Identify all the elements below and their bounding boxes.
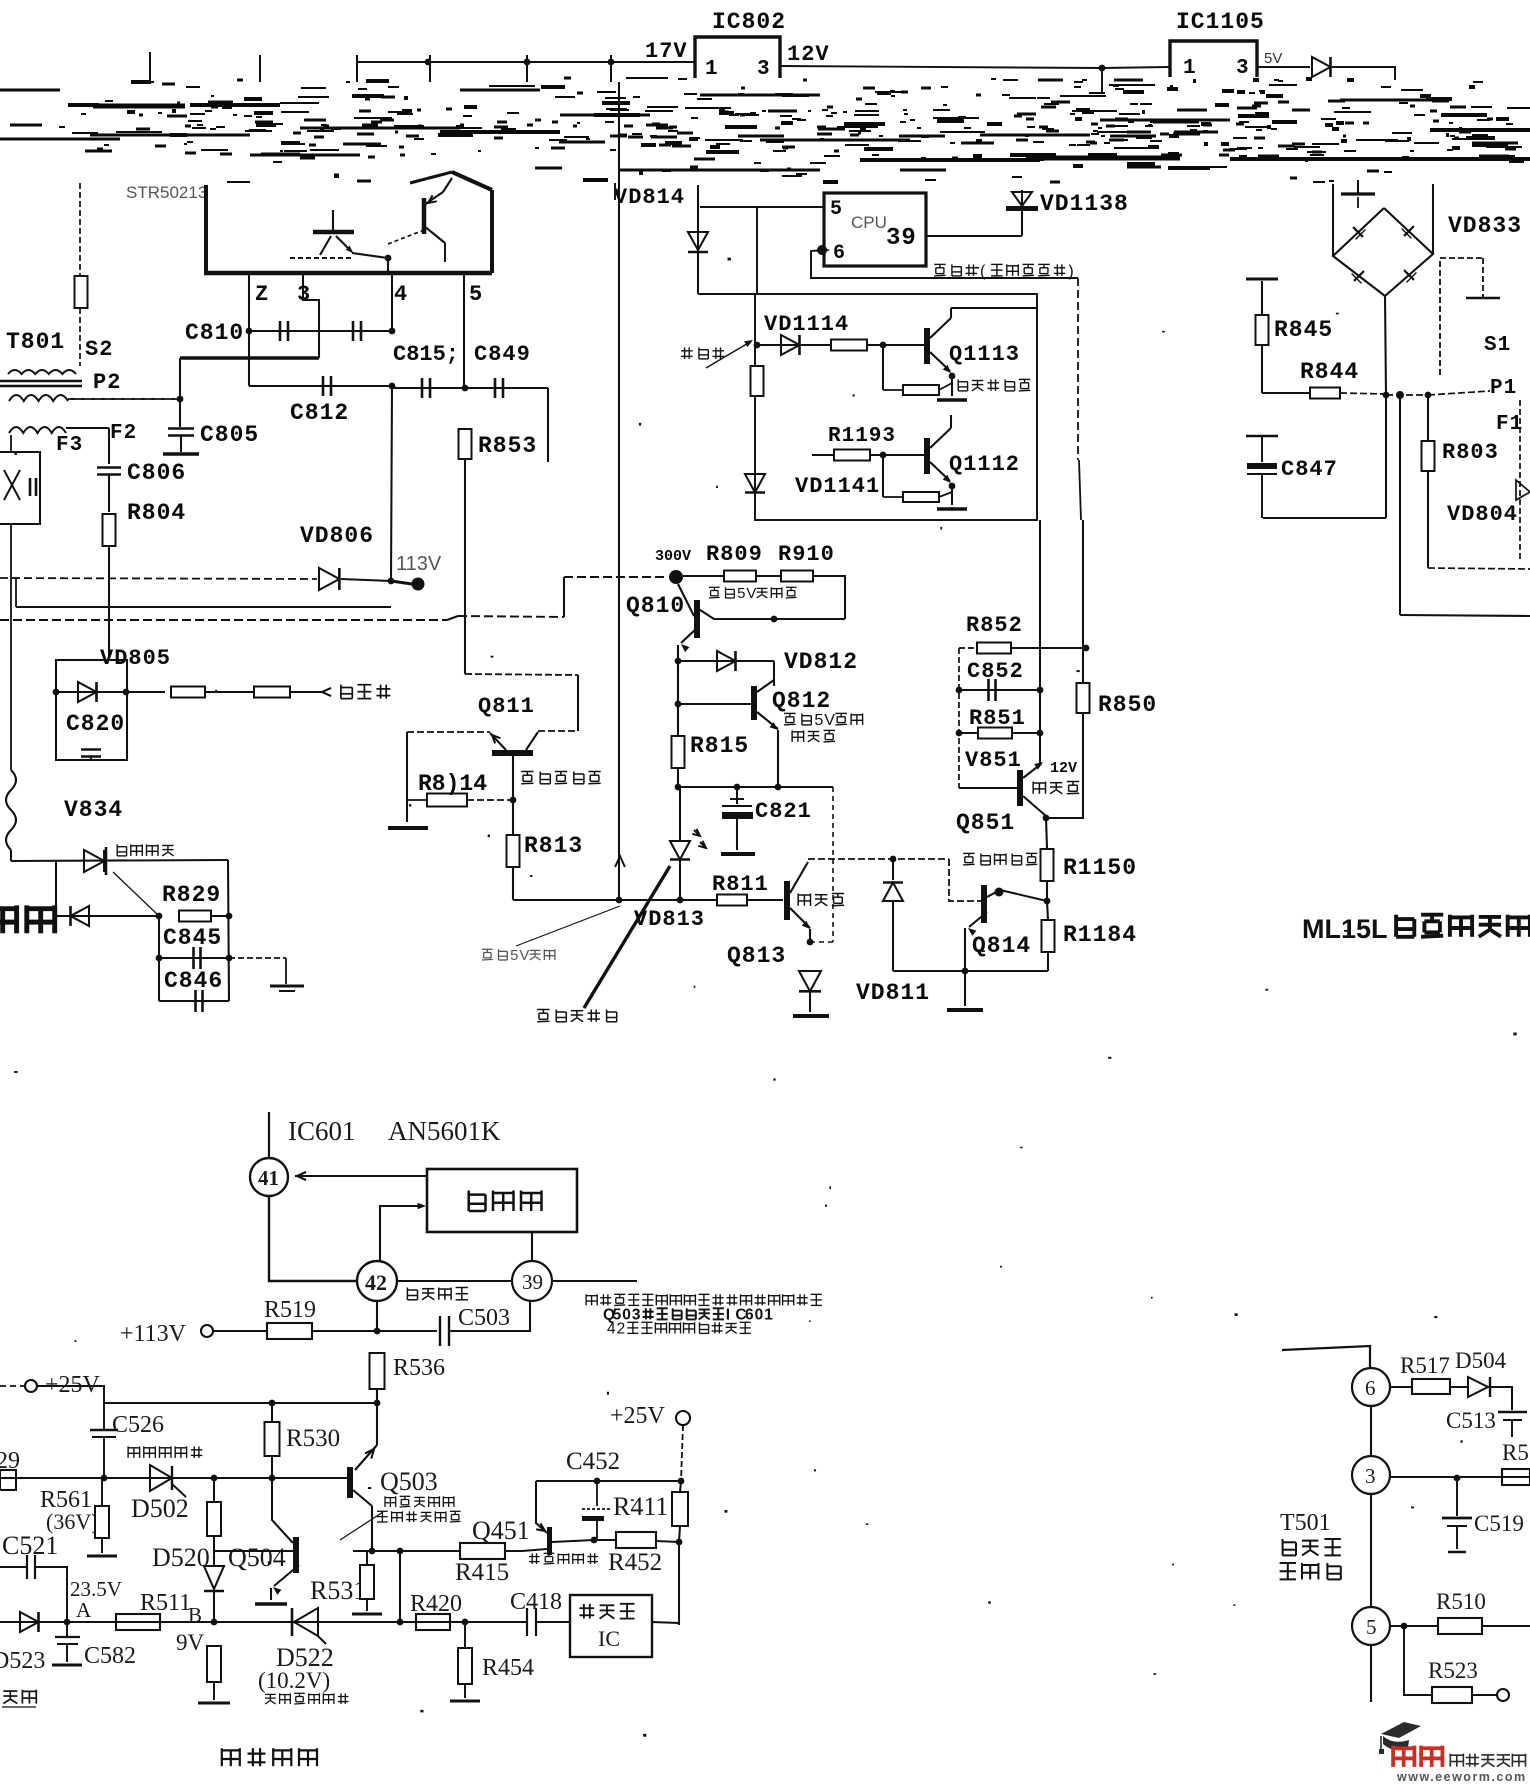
- svg-text:Q811: Q811: [478, 694, 535, 719]
- svg-text:R454: R454: [482, 1655, 534, 1681]
- svg-text:+25V: +25V: [45, 1372, 101, 1398]
- svg-text:V834: V834: [64, 797, 123, 823]
- svg-text:Q851: Q851: [956, 810, 1015, 836]
- svg-text:R853: R853: [478, 433, 537, 459]
- svg-text:AN5601K: AN5601K: [388, 1116, 501, 1146]
- svg-text:Q810: Q810: [626, 593, 685, 619]
- svg-text:5: 5: [737, 586, 745, 602]
- svg-text:STR50213: STR50213: [126, 183, 207, 202]
- svg-text:R910: R910: [778, 542, 835, 567]
- svg-text:3: 3: [1365, 1464, 1376, 1488]
- svg-text:R850: R850: [1098, 692, 1157, 718]
- svg-text:3: 3: [632, 1306, 641, 1323]
- svg-text:39: 39: [522, 1270, 543, 1294]
- svg-text:6: 6: [745, 1306, 754, 1323]
- svg-text:A: A: [76, 1598, 92, 1622]
- svg-text:F3: F3: [56, 434, 83, 457]
- svg-text:R844: R844: [1300, 359, 1359, 385]
- svg-text:(: (: [980, 262, 986, 280]
- svg-text:0: 0: [755, 1306, 764, 1323]
- svg-text:300V: 300V: [655, 548, 691, 565]
- svg-text:VD1141: VD1141: [795, 474, 880, 499]
- svg-text:C452: C452: [566, 1448, 620, 1475]
- svg-text:R1150: R1150: [1063, 855, 1137, 881]
- svg-text:B: B: [188, 1603, 202, 1627]
- svg-text:D523: D523: [0, 1648, 45, 1674]
- svg-text:Q451: Q451: [472, 1516, 530, 1545]
- svg-text:S1: S1: [1484, 334, 1511, 357]
- svg-text:F1: F1: [1496, 413, 1523, 436]
- svg-text:F2: F2: [110, 422, 137, 445]
- svg-text:C846: C846: [164, 968, 223, 994]
- svg-text:T801: T801: [6, 329, 65, 355]
- svg-text:R804: R804: [127, 500, 186, 526]
- svg-text:D520: D520: [152, 1543, 210, 1572]
- svg-text:VD814: VD814: [614, 185, 685, 210]
- svg-text:R415: R415: [455, 1559, 509, 1586]
- svg-text:R411: R411: [613, 1492, 668, 1521]
- svg-text:): ): [1068, 262, 1073, 280]
- svg-text:D502: D502: [131, 1494, 189, 1523]
- svg-text:4: 4: [394, 282, 408, 307]
- svg-text:R510: R510: [1436, 1589, 1486, 1614]
- svg-text:C805: C805: [200, 422, 259, 448]
- svg-text:5V: 5V: [1264, 50, 1282, 67]
- svg-text:+113V: +113V: [120, 1321, 187, 1347]
- svg-text:5: 5: [469, 282, 483, 307]
- svg-text:C503: C503: [458, 1305, 510, 1331]
- svg-text:ML15L: ML15L: [1302, 914, 1388, 944]
- svg-text:R852: R852: [966, 613, 1023, 638]
- svg-text:17V: 17V: [645, 39, 688, 64]
- svg-text:(10.2V): (10.2V): [258, 1668, 330, 1693]
- svg-text:R1193: R1193: [828, 425, 896, 448]
- svg-text:VD804: VD804: [1447, 502, 1518, 527]
- svg-text:D504: D504: [1455, 1348, 1507, 1373]
- svg-text:+25V: +25V: [610, 1403, 666, 1429]
- svg-text:IC: IC: [598, 1626, 620, 1651]
- svg-text:C849: C849: [474, 342, 531, 367]
- svg-text:VD833: VD833: [1448, 213, 1522, 239]
- svg-text:5: 5: [830, 198, 843, 221]
- svg-text:6: 6: [1365, 1376, 1376, 1400]
- svg-text:VD1138: VD1138: [1040, 191, 1129, 217]
- svg-text:VD1114: VD1114: [764, 312, 849, 337]
- svg-text:C519: C519: [1474, 1511, 1524, 1536]
- svg-text:3: 3: [1236, 57, 1250, 80]
- svg-text:C521: C521: [2, 1531, 58, 1560]
- svg-text:R813: R813: [524, 833, 583, 859]
- svg-text:CPU: CPU: [851, 213, 887, 232]
- svg-text:R511: R511: [140, 1590, 191, 1616]
- svg-text:R5: R5: [1502, 1440, 1529, 1465]
- svg-text:R530: R530: [286, 1425, 340, 1452]
- svg-text:42: 42: [365, 1270, 387, 1295]
- svg-text:9V: 9V: [176, 1630, 205, 1655]
- svg-text:R531: R531: [310, 1576, 366, 1605]
- svg-text:IC1105: IC1105: [1176, 9, 1265, 35]
- svg-text:R829: R829: [162, 882, 221, 908]
- svg-text:12V: 12V: [1050, 760, 1077, 777]
- svg-text:Q814: Q814: [972, 933, 1031, 959]
- svg-text:IC601: IC601: [288, 1116, 356, 1146]
- svg-text:I: I: [726, 1306, 730, 1323]
- svg-text:C806: C806: [127, 460, 186, 486]
- svg-text:3: 3: [757, 58, 771, 81]
- svg-text:Z: Z: [255, 282, 269, 307]
- svg-text:4: 4: [607, 1320, 616, 1337]
- svg-text:C820: C820: [66, 711, 125, 737]
- svg-text:T501: T501: [1280, 1510, 1331, 1536]
- svg-text:P1: P1: [1490, 377, 1517, 400]
- svg-text:R523: R523: [1428, 1658, 1478, 1683]
- svg-text:3: 3: [297, 282, 311, 307]
- svg-text:C526: C526: [112, 1412, 164, 1438]
- svg-text:VD811: VD811: [856, 980, 930, 1006]
- svg-text:VD806: VD806: [300, 523, 374, 549]
- svg-text:113V: 113V: [396, 553, 442, 575]
- svg-text:1: 1: [1183, 57, 1197, 80]
- svg-text:Q504: Q504: [228, 1543, 286, 1572]
- svg-text:S2: S2: [85, 337, 113, 362]
- svg-text:5: 5: [1366, 1615, 1377, 1639]
- svg-text:V: V: [824, 711, 835, 729]
- svg-text:R803: R803: [1442, 440, 1499, 465]
- svg-text:VD812: VD812: [784, 649, 858, 675]
- svg-text:C847: C847: [1281, 457, 1338, 482]
- svg-text:V851: V851: [965, 748, 1022, 773]
- svg-text:12V: 12V: [787, 42, 830, 67]
- svg-text:Q1113: Q1113: [949, 342, 1020, 367]
- svg-text:P2: P2: [93, 370, 121, 395]
- svg-text:R536: R536: [393, 1355, 445, 1381]
- svg-text:Q813: Q813: [727, 943, 786, 969]
- svg-text:Q1112: Q1112: [949, 452, 1020, 477]
- svg-text:C513: C513: [1446, 1408, 1496, 1433]
- svg-text:V: V: [519, 948, 529, 964]
- svg-text:R452: R452: [608, 1549, 662, 1576]
- svg-text:www.eeworm.com: www.eeworm.com: [1396, 1770, 1527, 1782]
- svg-text:R811: R811: [712, 872, 769, 897]
- svg-text:R420: R420: [410, 1591, 462, 1617]
- svg-text:R815: R815: [690, 733, 749, 759]
- svg-text:C815;: C815;: [393, 342, 459, 367]
- svg-text:C810: C810: [185, 320, 244, 346]
- svg-text:R809: R809: [706, 542, 763, 567]
- svg-text:R517: R517: [1400, 1353, 1450, 1378]
- svg-text:5: 5: [510, 948, 518, 964]
- svg-text:Q503: Q503: [380, 1467, 438, 1496]
- svg-text:1: 1: [705, 58, 719, 81]
- svg-text:R8)14: R8)14: [418, 771, 487, 797]
- svg-text:VD805: VD805: [100, 646, 171, 671]
- svg-text:2: 2: [617, 1320, 626, 1337]
- svg-text:C582: C582: [84, 1643, 136, 1669]
- svg-text:R519: R519: [264, 1297, 316, 1323]
- svg-text:39: 39: [886, 225, 917, 252]
- svg-text:5: 5: [814, 711, 823, 729]
- svg-text:C812: C812: [290, 400, 349, 426]
- svg-text:R845: R845: [1274, 317, 1333, 343]
- svg-text:6: 6: [833, 242, 846, 265]
- svg-text:C821: C821: [755, 799, 812, 824]
- svg-text:41: 41: [258, 1166, 279, 1190]
- svg-text:V: V: [746, 586, 756, 602]
- svg-text:R1184: R1184: [1063, 922, 1137, 948]
- svg-text:1: 1: [764, 1306, 773, 1323]
- svg-text:IC802: IC802: [712, 9, 786, 35]
